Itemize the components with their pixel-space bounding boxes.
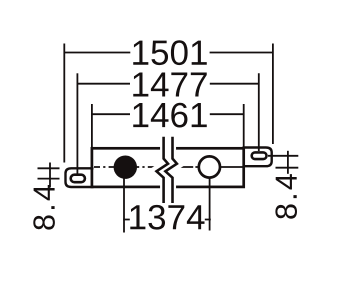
dimension 1461 line (92, 113, 244, 115)
dimension 1477 right extension (258, 73, 260, 151)
left 8.4 dimension line (49, 163, 51, 188)
break symbol white casing (161, 137, 173, 203)
right mounting tab (243, 148, 272, 167)
dimension 1461 right extension (243, 104, 245, 149)
break line left (157, 137, 169, 203)
label 8.4 left (33, 185, 55, 230)
right 8.4 ticks (268, 156, 298, 168)
dimension 1477 line (77, 83, 258, 85)
dimension 1374 extension right (209, 179, 211, 231)
label 1501 (133, 40, 207, 65)
lampholder open circle (199, 156, 220, 177)
label 1374 (130, 205, 204, 230)
right slot (252, 152, 267, 159)
left 8.4 ticks (38, 168, 60, 178)
centerline (94, 166, 162, 168)
lampholder black dot (114, 156, 137, 179)
dimension 1477 left extension (76, 73, 78, 173)
left mounting tab (66, 168, 94, 187)
dimension 1374 line (123, 219, 211, 221)
dimension 1501 line (64, 52, 273, 54)
dimension 1461 left extension (91, 104, 93, 149)
fixture body (92, 148, 244, 187)
label 1461 (133, 103, 207, 128)
break line right (165, 137, 177, 203)
dimension 1374 extension left (123, 179, 125, 233)
dimension 1501 left extension (63, 44, 65, 163)
centerline right part (179, 166, 244, 168)
label 8.4 right (275, 174, 297, 219)
right 8.4 dimension line (287, 151, 289, 174)
label 1477 (133, 72, 206, 96)
left slot (71, 175, 85, 183)
dimension 1501 right extension (272, 44, 274, 145)
